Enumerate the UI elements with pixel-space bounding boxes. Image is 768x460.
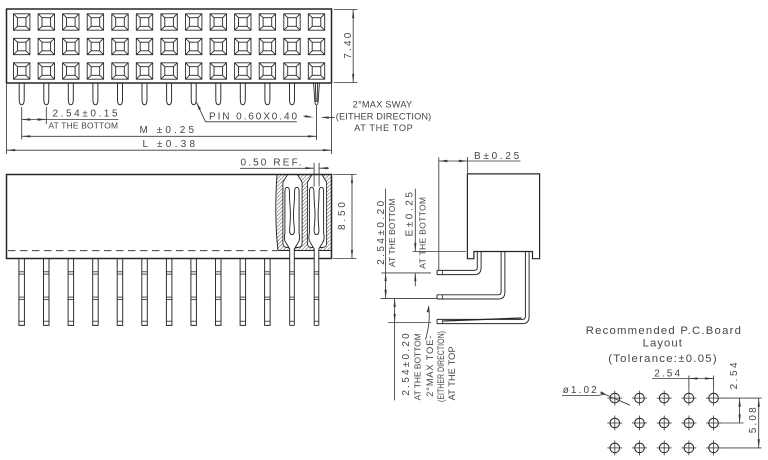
svg-text:L ±0.38: L ±0.38 [143, 139, 196, 150]
svg-text:(Tolerance:±0.05): (Tolerance:±0.05) [608, 353, 717, 365]
svg-text:2.54±0.20: 2.54±0.20 [376, 200, 387, 264]
svg-text:7.40: 7.40 [343, 32, 354, 58]
svg-text:8.50: 8.50 [337, 202, 348, 230]
dimension 2.54±0.20 rows 1-2 [381, 297, 437, 299]
section: hatch bottom boundary [278, 250, 332, 252]
dimension E±0.25 AT THE BOTTOM [413, 251, 467, 253]
side view: body outline with standoffs [467, 174, 539, 259]
svg-text:(EITHER DIRECTION): (EITHER DIRECTION) [336, 111, 431, 121]
svg-text:2°MAX SWAY: 2°MAX SWAY [353, 99, 413, 109]
svg-text:AT THE TOP: AT THE TOP [354, 123, 413, 133]
top view: pins hanging below body [19, 83, 294, 105]
front view: dashed hidden line [8, 250, 277, 252]
dimension 8.50 (front body height) [333, 174, 357, 176]
svg-text:5.08: 5.08 [748, 407, 759, 433]
svg-text:Recommended P.C.Board: Recommended P.C.Board [586, 325, 741, 337]
dimension 2.54±0.20 rows 2-3 [388, 322, 431, 324]
svg-text:AT THE BOTTOM: AT THE BOTTOM [49, 121, 119, 131]
section: bulged outer wall edge [276, 175, 278, 251]
section: fork contacts [284, 187, 299, 325]
side view: 2 deg toe deviation line [443, 318, 521, 321]
dimension L ±0.38 [6, 84, 8, 154]
top view: header body outline [7, 9, 332, 83]
top view: 13x3 grid of square socket openings [14, 14, 325, 79]
svg-text:AT THE BOTTOM: AT THE BOTTOM [387, 198, 397, 267]
pcb layout: 5x3 grid of plated holes [607, 391, 721, 456]
section: cavity outlines [283, 175, 302, 248]
dimension B±0.25 [438, 157, 440, 270]
dimension 5.08 vertical (pcb) [744, 397, 762, 399]
dimension 2.54 vertical (pcb) [720, 397, 744, 399]
svg-text:ø1.02: ø1.02 [563, 385, 597, 396]
svg-text:AT THE TOP: AT THE TOP [447, 346, 457, 400]
dimension 2.54 horizontal (pcb) [688, 376, 690, 391]
svg-text:AT THE BOTTOM: AT THE BOTTOM [412, 333, 422, 400]
sway arrows at last pin [304, 115, 311, 118]
svg-text:2.54: 2.54 [654, 368, 680, 379]
section: hatched insulator walls [277, 175, 331, 251]
extension lines for contact slot [313, 163, 315, 187]
front view: through pins below body [19, 259, 270, 326]
section: marks on contact tails [290, 271, 295, 273]
svg-text:M ±0.25: M ±0.25 [140, 125, 195, 136]
dimension 2.54±0.15 AT THE BOTTOM [21, 107, 23, 140]
svg-text:2.54±0.15: 2.54±0.15 [53, 108, 118, 119]
svg-text:B±0.25: B±0.25 [474, 151, 520, 162]
front view: body outline [7, 175, 332, 259]
svg-text:0.50 REF.: 0.50 REF. [241, 158, 302, 169]
svg-text:2.54: 2.54 [729, 362, 740, 389]
svg-text:AT THE BOTTOM: AT THE BOTTOM [418, 197, 428, 269]
label PIN 0.60X0.40 with leader to pin [206, 121, 297, 123]
dimension M ±0.25 [316, 105, 318, 140]
svg-text:E±0.25: E±0.25 [404, 192, 415, 237]
2 deg angle leader arc [426, 306, 430, 340]
svg-text:Layout: Layout [643, 338, 683, 350]
svg-text:2°MAX TOE-: 2°MAX TOE- [425, 336, 435, 397]
svg-text:2.54±0.20: 2.54±0.20 [401, 333, 412, 396]
top view: last pin with 2 deg sway envelope [314, 83, 320, 105]
svg-text:PIN 0.60X0.40: PIN 0.60X0.40 [209, 112, 297, 123]
dimension 7.40 (top view height) [334, 9, 358, 11]
svg-text:(EITHER DIRECTION): (EITHER DIRECTION) [436, 331, 446, 402]
side view: three bent pins [437, 252, 477, 271]
